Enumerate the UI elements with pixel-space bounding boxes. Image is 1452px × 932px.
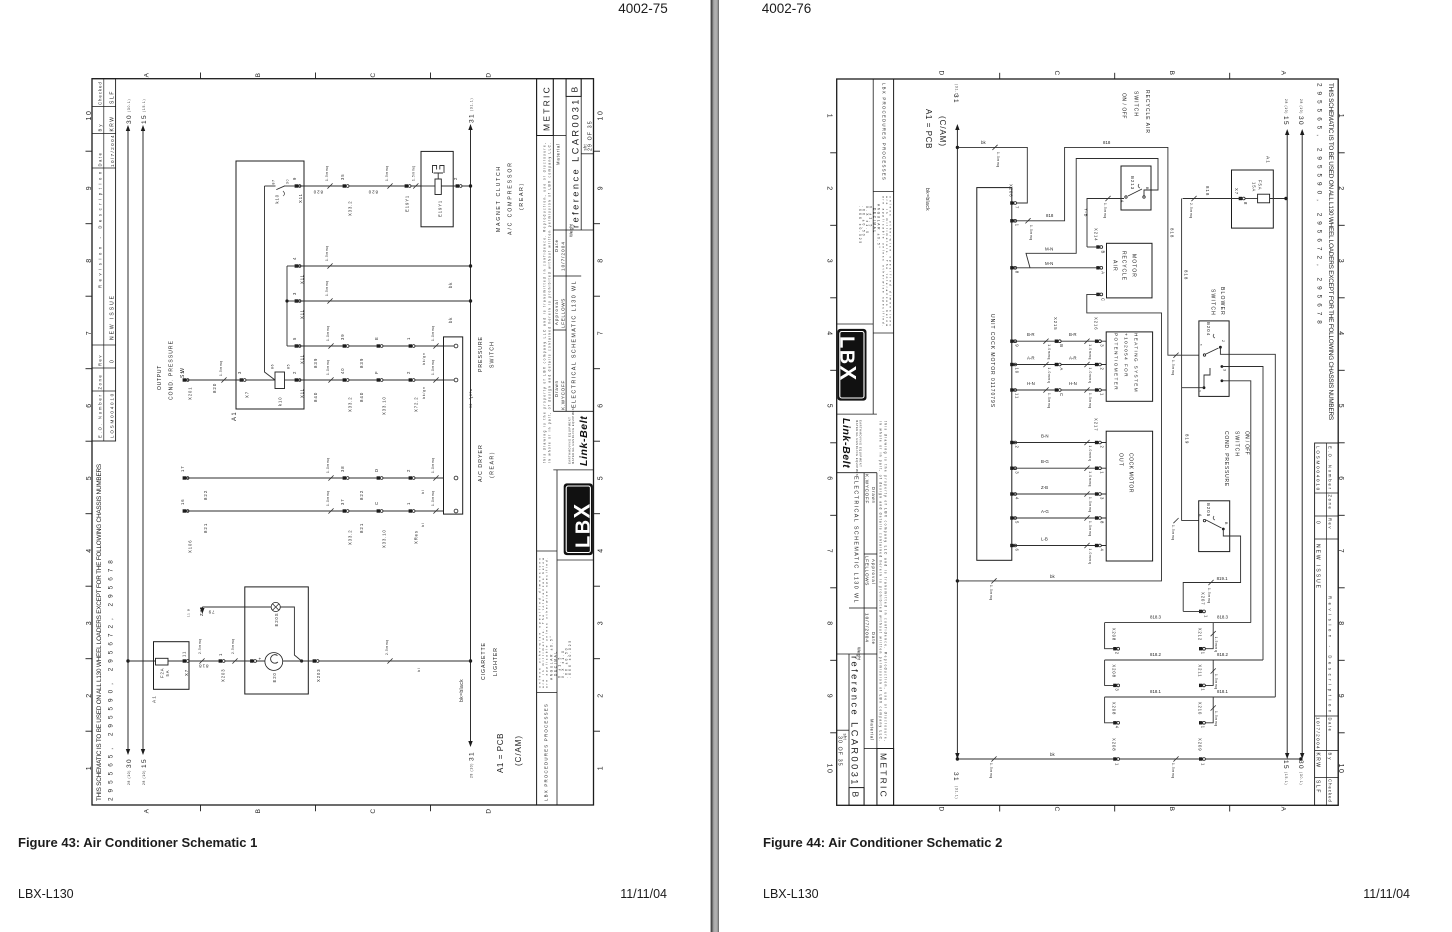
svg-text:X72.2: X72.2 xyxy=(414,396,419,412)
svg-text:F2A: F2A xyxy=(160,668,165,678)
svg-text:B: B xyxy=(1059,344,1064,348)
svg-text:1: 1 xyxy=(1198,390,1202,393)
svg-text:1.0mmq: 1.0mmq xyxy=(326,359,330,375)
svg-text:1.0mmq: 1.0mmq xyxy=(1088,368,1092,384)
svg-text:in whole or in part, of design: in whole or in part, of design and detai… xyxy=(548,142,552,463)
svg-text:F: F xyxy=(374,371,379,374)
svg-text:2: 2 xyxy=(406,371,411,374)
svg-text:1: 1 xyxy=(1201,763,1206,766)
svg-text:OUT: OUT xyxy=(1118,453,1124,467)
svg-text:X208: X208 xyxy=(1112,664,1117,677)
svg-text:2: 2 xyxy=(1115,652,1120,655)
svg-text:86: 86 xyxy=(271,364,275,369)
svg-text:840: 840 xyxy=(313,392,318,402)
svg-text:10: 10 xyxy=(1015,368,1020,375)
svg-text:38: 38 xyxy=(340,466,345,473)
svg-text:C: C xyxy=(1101,298,1106,302)
svg-text:2: 2 xyxy=(1099,446,1104,449)
svg-text:X203: X203 xyxy=(316,669,321,682)
svg-text:A1 = PCB: A1 = PCB xyxy=(924,109,933,149)
svg-text:KRW: KRW xyxy=(110,116,116,132)
svg-text:1.5mmq: 1.5mmq xyxy=(1171,360,1175,376)
svg-text:818.1: 818.1 xyxy=(1217,689,1229,694)
svg-text:Date: Date xyxy=(554,239,559,252)
svg-text:1.5mmq: 1.5mmq xyxy=(1214,711,1218,727)
svg-text:818.1: 818.1 xyxy=(1150,689,1162,694)
svg-text:Approval: Approval xyxy=(554,299,559,325)
svg-text:C: C xyxy=(370,807,377,813)
svg-text:(31.1): (31.1) xyxy=(470,98,474,111)
svg-text:ON / OFF: ON / OFF xyxy=(1244,431,1250,455)
svg-text:5: 5 xyxy=(292,337,297,340)
svg-text:1: 1 xyxy=(86,765,93,770)
svg-text:839: 839 xyxy=(359,358,364,368)
svg-text:1.0mmq: 1.0mmq xyxy=(1047,368,1051,384)
svg-text:2.5mmq: 2.5mmq xyxy=(1189,203,1193,219)
svg-text:XRes: XRes xyxy=(414,530,419,544)
svg-text:3: 3 xyxy=(237,371,242,374)
svg-text:Date: Date xyxy=(98,152,103,167)
svg-text:C: C xyxy=(1059,393,1064,397)
svg-text:1: 1 xyxy=(406,502,411,505)
recycle air switch B213 xyxy=(1121,166,1151,210)
wire 820 to magnet clutch xyxy=(298,185,421,187)
svg-text:X201: X201 xyxy=(188,387,193,400)
svg-text:1.5mmq: 1.5mmq xyxy=(1207,588,1211,604)
svg-text:A: A xyxy=(1198,514,1202,517)
svg-text:A-R: A-R xyxy=(1027,356,1035,361)
svg-text:LOSM004010: LOSM004010 xyxy=(110,392,115,438)
svg-text:THIS SCHEMATIC IS TO BE USED O: THIS SCHEMATIC IS TO BE USED ON ALL L130… xyxy=(96,464,103,801)
svg-text:A: A xyxy=(144,808,151,814)
svg-text:X11: X11 xyxy=(300,388,305,398)
svg-text:Material: Material xyxy=(556,143,561,165)
lamp E20S xyxy=(271,602,280,611)
svg-text:87a: 87a xyxy=(469,389,473,396)
svg-text:3: 3 xyxy=(1099,497,1104,500)
svg-text:B204: B204 xyxy=(1206,322,1211,336)
svg-text:k10: k10 xyxy=(278,396,283,406)
svg-text:POTENTIOMETER: POTENTIOMETER xyxy=(1114,333,1119,391)
svg-text:1: 1 xyxy=(1015,224,1020,227)
svg-text:X203: X203 xyxy=(221,669,226,682)
svg-text:1.5mmq: 1.5mmq xyxy=(325,165,329,181)
svg-text:30: 30 xyxy=(126,758,133,768)
svg-text:1.5mmq: 1.5mmq xyxy=(1171,525,1175,541)
svg-text:822: 822 xyxy=(203,490,208,500)
svg-text:4: 4 xyxy=(1115,726,1120,729)
svg-text:818.2: 818.2 xyxy=(1150,652,1162,657)
svg-text:9: 9 xyxy=(598,185,605,190)
svg-text:A/C COMPRESSOR: A/C COMPRESSOR xyxy=(508,161,514,235)
svg-text:2: 2 xyxy=(1015,446,1020,449)
svg-text:B-R: B-R xyxy=(1027,332,1035,337)
svg-text:Rev: Rev xyxy=(98,354,103,366)
svg-text:1: 1 xyxy=(1115,763,1120,766)
svg-text:X7: X7 xyxy=(1234,188,1239,195)
svg-text:818: 818 xyxy=(1205,186,1210,196)
svg-text:821: 821 xyxy=(203,523,208,533)
svg-text:E: E xyxy=(374,336,379,340)
svg-text:1.0mmq: 1.0mmq xyxy=(1088,549,1092,565)
svg-text:30: 30 xyxy=(126,114,133,124)
svg-text:Revision - Description: Revision - Description xyxy=(98,168,103,288)
svg-text:B: B xyxy=(570,85,580,93)
svg-text:31: 31 xyxy=(952,772,959,782)
svg-text:LIGHTER: LIGHTER xyxy=(493,647,499,676)
svg-text:818: 818 xyxy=(1103,140,1111,145)
svg-text:bl: bl xyxy=(417,668,421,672)
svg-text:Z73: Z73 xyxy=(199,606,204,616)
out cock motor xyxy=(1106,431,1152,561)
svg-text:6: 6 xyxy=(1015,549,1020,552)
svg-text:87: 87 xyxy=(272,179,276,184)
svg-text:818: 818 xyxy=(1184,270,1189,280)
svg-text:3: 3 xyxy=(292,292,297,295)
svg-text:3: 3 xyxy=(1015,471,1020,474)
svg-text:LBX PROCEDURES PROCESSES: LBX PROCEDURES PROCESSES xyxy=(544,703,549,801)
svg-text:RECYCLE AIR: RECYCLE AIR xyxy=(1144,90,1150,134)
svg-text:37: 37 xyxy=(340,499,345,506)
svg-text:1: 1 xyxy=(1099,471,1104,474)
svg-text:ELECTRICAL SCHEMATIC L130 WL: ELECTRICAL SCHEMATIC L130 WL xyxy=(572,280,578,408)
svg-text:k10: k10 xyxy=(275,194,280,204)
svg-text:1.0mmq: 1.0mmq xyxy=(989,585,993,601)
svg-text:X106: X106 xyxy=(188,540,193,553)
svg-text:5A: 5A xyxy=(165,670,170,677)
svg-text:840: 840 xyxy=(359,392,364,402)
pressure switch and A/C dryer box xyxy=(444,337,463,514)
potentiometer +102054 for heating system xyxy=(1106,332,1152,401)
svg-text:A1 = PCB: A1 = PCB xyxy=(496,733,505,773)
svg-text:C: C xyxy=(374,501,379,505)
svg-text:Drawn: Drawn xyxy=(554,380,559,397)
svg-text:B-N: B-N xyxy=(1041,434,1049,439)
relay coil k10 xyxy=(275,372,285,389)
svg-text:1.0mmq: 1.0mmq xyxy=(431,457,435,473)
connector X207 and wire 819.1 xyxy=(1199,610,1202,613)
svg-text:H-N: H-N xyxy=(1069,381,1077,386)
svg-text:11 B: 11 B xyxy=(187,608,191,617)
svg-text:COND. PRESSURE: COND. PRESSURE xyxy=(1223,431,1229,487)
svg-text:1: 1 xyxy=(598,765,605,770)
svg-text:1: 1 xyxy=(406,337,411,340)
svg-text:RECYCLE: RECYCLE xyxy=(1121,251,1127,281)
svg-text:11: 11 xyxy=(182,651,187,657)
svg-text:D: D xyxy=(486,807,493,813)
svg-text:AIR: AIR xyxy=(1112,260,1118,272)
svg-text:X11: X11 xyxy=(300,309,305,319)
svg-text:X33.2: X33.2 xyxy=(348,200,353,216)
svg-text:820: 820 xyxy=(212,383,217,393)
svg-text:(30.1): (30.1) xyxy=(127,99,131,112)
svg-text:1: 1 xyxy=(1201,652,1206,655)
svg-text:818: 818 xyxy=(198,664,208,669)
wires 839 840 to pressure switch xyxy=(298,345,444,347)
svg-text:4: 4 xyxy=(1015,497,1020,500)
svg-text:L-B: L-B xyxy=(1041,537,1048,542)
svg-text:1.5mmq: 1.5mmq xyxy=(989,763,993,779)
svg-text:Figure 44: Air Conditioner Sch: Figure 44: Air Conditioner Schematic 2 xyxy=(763,835,1002,850)
svg-text:6: 6 xyxy=(598,402,605,407)
svg-text:B: B xyxy=(1145,187,1149,190)
svg-text:4: 4 xyxy=(598,547,605,552)
svg-text:2: 2 xyxy=(598,692,605,697)
svg-text:28 (10): 28 (10) xyxy=(142,770,146,785)
svg-text:SW: SW xyxy=(180,366,186,378)
svg-text:(REAR): (REAR) xyxy=(519,182,525,210)
condenser pressure switch B205 xyxy=(1199,501,1230,552)
svg-text:E20S: E20S xyxy=(274,613,279,627)
ground bus 31 right page xyxy=(956,127,958,759)
svg-text:4002-76: 4002-76 xyxy=(762,1,812,16)
svg-text:.XXX ±0.025: .XXX ±0.025 xyxy=(568,639,572,678)
svg-text:ON / OFF: ON / OFF xyxy=(1121,93,1127,119)
svg-text:15: 15 xyxy=(141,758,148,768)
svg-text:1.5mmq: 1.5mmq xyxy=(325,245,329,261)
title block xyxy=(536,79,538,805)
svg-text:818.3: 818.3 xyxy=(1217,615,1229,620)
svg-text:818: 818 xyxy=(1046,213,1054,218)
svg-text:2: 2 xyxy=(1221,340,1225,343)
svg-text:(C/AM): (C/AM) xyxy=(938,116,947,147)
svg-text:H-N: H-N xyxy=(1027,381,1035,386)
svg-text:bk=black: bk=black xyxy=(459,679,465,702)
svg-text:this drawing is the property o: this drawing is the property of LBX comp… xyxy=(543,142,547,463)
svg-text:bk: bk xyxy=(448,317,453,323)
svg-text:1.0mmq: 1.0mmq xyxy=(1047,344,1051,360)
svg-text:A-R: A-R xyxy=(1069,356,1077,361)
svg-text:Zone: Zone xyxy=(98,374,103,390)
svg-text:1.0mmq: 1.0mmq xyxy=(1047,393,1051,409)
svg-text:(15.1): (15.1) xyxy=(142,99,146,112)
svg-text:A1: A1 xyxy=(152,695,158,703)
svg-text:7: 7 xyxy=(1015,206,1020,209)
svg-text:+: + xyxy=(258,656,263,660)
svg-text:2: 2 xyxy=(86,692,93,697)
svg-text:MOTOR: MOTOR xyxy=(1131,254,1137,278)
svg-text:28 (10): 28 (10) xyxy=(470,763,474,778)
svg-text:X212: X212 xyxy=(1198,628,1203,641)
svg-text:8: 8 xyxy=(1243,202,1248,205)
wires M-N xyxy=(1014,267,1100,269)
svg-text:1.5mmq: 1.5mmq xyxy=(219,360,223,376)
svg-text:CIGARETTE: CIGARETTE xyxy=(481,642,487,680)
svg-text:1.0mmq: 1.0mmq xyxy=(1088,344,1092,360)
svg-text:X33.10: X33.10 xyxy=(382,529,387,548)
svg-text:X211: X211 xyxy=(1198,664,1203,677)
svg-text:8: 8 xyxy=(598,257,605,262)
svg-text:822: 822 xyxy=(359,490,364,500)
svg-text:4: 4 xyxy=(292,257,297,260)
svg-text:17: 17 xyxy=(180,466,185,473)
svg-text:B-R: B-R xyxy=(1069,332,1077,337)
svg-text:16: 16 xyxy=(180,499,185,506)
magnet clutch coil E19Y1 xyxy=(421,151,453,226)
svg-text:K.WYCOFF: K.WYCOFF xyxy=(561,380,566,410)
svg-text:A: A xyxy=(144,72,151,78)
svg-text:3: 3 xyxy=(86,620,93,625)
svg-text:bk/gn: bk/gn xyxy=(422,352,426,365)
svg-text:A: A xyxy=(1101,271,1106,275)
svg-text:A/C DRYER: A/C DRYER xyxy=(478,444,484,482)
svg-text:15A: 15A xyxy=(1252,182,1257,192)
svg-text:10: 10 xyxy=(598,110,605,121)
svg-text:X207: X207 xyxy=(1201,592,1206,605)
svg-text:MATERIAL HANDLING EQUIPMENT: MATERIAL HANDLING EQUIPMENT xyxy=(571,406,575,464)
svg-text:1.0mmq: 1.0mmq xyxy=(326,325,330,341)
svg-text:40: 40 xyxy=(340,368,345,375)
wire bk to connector X206 pin 7 xyxy=(957,147,1027,203)
svg-text:31: 31 xyxy=(469,113,476,123)
bottom bk ground wire with X208 X209 xyxy=(957,758,1301,760)
svg-text:X7: X7 xyxy=(184,669,189,676)
blower switch B204 xyxy=(1199,321,1229,397)
svg-text:1: 1 xyxy=(218,653,223,656)
svg-text:OUTPUT: OUTPUT xyxy=(157,365,163,390)
svg-text:D: D xyxy=(374,468,379,472)
svg-text:2.5mmq: 2.5mmq xyxy=(231,638,235,654)
svg-text:30: 30 xyxy=(286,179,290,184)
svg-text:0: 0 xyxy=(110,359,116,363)
svg-text:B-G: B-G xyxy=(1041,459,1049,464)
svg-text:PRESSURE: PRESSURE xyxy=(478,336,484,372)
svg-text:UNIT COCK MOTOR 0117079S: UNIT COCK MOTOR 0117079S xyxy=(989,314,995,408)
svg-text:X215: X215 xyxy=(1053,317,1058,330)
svg-text:2.5mmq: 2.5mmq xyxy=(385,639,389,655)
svg-text:Y-B: Y-B xyxy=(1084,208,1089,217)
svg-text:11/11/04: 11/11/04 xyxy=(1363,887,1410,901)
svg-text:SWITCH: SWITCH xyxy=(1210,289,1216,316)
svg-text:COND. PRESSURE: COND. PRESSURE xyxy=(169,340,175,400)
svg-text:820: 820 xyxy=(368,190,378,195)
svg-text:B: B xyxy=(1101,251,1106,255)
svg-text:28 (10): 28 (10) xyxy=(127,770,131,785)
svg-text:2: 2 xyxy=(406,469,411,472)
svg-text:5: 5 xyxy=(86,475,93,480)
LBX logo xyxy=(564,483,593,555)
svg-text:X33.2: X33.2 xyxy=(348,396,353,412)
svg-text:2: 2 xyxy=(1099,368,1104,371)
svg-text:1.5mmq: 1.5mmq xyxy=(1214,637,1218,653)
svg-text:Z-B: Z-B xyxy=(1041,485,1048,490)
svg-text:1: 1 xyxy=(1099,393,1104,396)
blower resistor wires 818.3 818.2 818.1 via X208 X212 X211 X210 xyxy=(1105,622,1251,624)
svg-text:85: 85 xyxy=(287,364,291,369)
svg-text:bk/gn: bk/gn xyxy=(422,386,426,399)
svg-text:1.0mmq: 1.0mmq xyxy=(1088,446,1092,462)
svg-text:SWITCH: SWITCH xyxy=(490,341,496,368)
svg-text:B: B xyxy=(1224,522,1228,525)
svg-text:C: C xyxy=(370,71,377,77)
svg-text:bk=black: bk=black xyxy=(924,188,930,211)
cigarette lighter element E20 xyxy=(265,653,283,671)
svg-text:1.0mmq: 1.0mmq xyxy=(431,325,435,341)
svg-text:LBX-L130: LBX-L130 xyxy=(763,887,819,901)
svg-text:1.5mmq: 1.5mmq xyxy=(412,165,416,181)
svg-text:1.5mmq: 1.5mmq xyxy=(1103,203,1107,219)
svg-text:Checked: Checked xyxy=(98,81,103,105)
svg-text:A: A xyxy=(1059,368,1064,372)
svg-text:31: 31 xyxy=(469,751,476,761)
svg-text:1.5mmq: 1.5mmq xyxy=(1214,674,1218,690)
svg-text:EARTHMOVING EQUIPMENT: EARTHMOVING EQUIPMENT xyxy=(568,417,572,464)
revision table xyxy=(92,79,116,441)
svg-text:3: 3 xyxy=(1223,369,1227,372)
svg-text:1.0mmq: 1.0mmq xyxy=(1088,497,1092,513)
svg-text:SLF: SLF xyxy=(110,90,116,104)
ground bus 31 xyxy=(470,127,472,741)
wires X11:4 X11:3 to bus 31 xyxy=(298,265,471,267)
svg-text:Figure 43: Air Conditioner Sch: Figure 43: Air Conditioner Schematic 1 xyxy=(18,835,257,850)
svg-text:9: 9 xyxy=(1015,344,1020,347)
svg-text:11/11/04: 11/11/04 xyxy=(620,887,667,901)
svg-text:LBX-L130: LBX-L130 xyxy=(18,887,74,901)
svg-text:E19Y1: E19Y1 xyxy=(405,195,410,212)
svg-text:3: 3 xyxy=(1099,344,1104,347)
svg-text:bk: bk xyxy=(1050,574,1055,579)
svg-text:1.0mmq: 1.0mmq xyxy=(326,490,330,506)
svg-text:1.0mmq: 1.0mmq xyxy=(996,152,1000,168)
svg-text:30 OF 35: 30 OF 35 xyxy=(837,736,843,767)
svg-text:(REAR): (REAR) xyxy=(490,451,496,478)
svg-text:X11: X11 xyxy=(298,193,303,203)
svg-text:HEATING SYSTEM: HEATING SYSTEM xyxy=(1134,333,1139,393)
svg-text:818: 818 xyxy=(1170,228,1175,238)
svg-text:X209: X209 xyxy=(1198,738,1203,751)
svg-text:4002-75: 4002-75 xyxy=(618,1,668,16)
svg-text:X7: X7 xyxy=(245,391,250,398)
svg-text:(31.1): (31.1) xyxy=(954,786,958,799)
svg-text:X33.10: X33.10 xyxy=(382,396,387,415)
svg-text:B213: B213 xyxy=(1130,176,1135,190)
svg-text:1.5mmq: 1.5mmq xyxy=(1171,763,1175,779)
svg-text:29 OF 35: 29 OF 35 xyxy=(588,120,594,151)
svg-text:2: 2 xyxy=(453,177,458,180)
svg-text:2.5mmq: 2.5mmq xyxy=(198,638,202,654)
svg-text:bk: bk xyxy=(448,282,453,288)
svg-text:839: 839 xyxy=(313,358,318,368)
relay contact k10 xyxy=(295,184,298,187)
svg-text:1.0mmq: 1.0mmq xyxy=(1088,393,1092,409)
svg-text:1.0mmq: 1.0mmq xyxy=(1088,521,1092,537)
svg-text:F5A: F5A xyxy=(1258,180,1263,190)
svg-text:X216: X216 xyxy=(1094,317,1099,330)
svg-text:METRIC: METRIC xyxy=(542,85,552,131)
connector X201 pin 1 and wire 820 xyxy=(183,378,186,381)
svg-text:*: * xyxy=(1198,344,1203,347)
unit cock motor 0117079S with connector X206 xyxy=(977,188,1012,561)
svg-text:LB: LB xyxy=(573,518,595,548)
svg-text:Link-Belt: Link-Belt xyxy=(578,416,590,466)
svg-text:1.0mmq: 1.0mmq xyxy=(431,490,435,506)
svg-text:3: 3 xyxy=(1115,688,1120,691)
svg-text:D: D xyxy=(486,71,493,77)
svg-text:LFELLOWS: LFELLOWS xyxy=(561,298,566,328)
svg-text:35: 35 xyxy=(340,174,345,181)
svg-text:M-N: M-N xyxy=(1045,246,1053,251)
svg-text:+102054 FOR: +102054 FOR xyxy=(1124,333,1129,378)
svg-text:30: 30 xyxy=(469,403,473,408)
svg-text:E20: E20 xyxy=(272,672,277,682)
svg-text:A: A xyxy=(1120,200,1124,203)
svg-text:1: 1 xyxy=(1201,688,1206,691)
fuse F5A 15A in PCB A1 xyxy=(1232,170,1274,228)
svg-text:1.0mmq: 1.0mmq xyxy=(1029,225,1033,241)
svg-text:3: 3 xyxy=(598,620,605,625)
svg-text:818.2: 818.2 xyxy=(1217,652,1229,657)
svg-text:39: 39 xyxy=(340,334,345,341)
